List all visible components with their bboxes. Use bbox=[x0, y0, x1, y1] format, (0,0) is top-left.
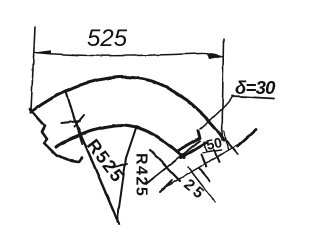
wire: extension line through 25 text bbox=[188, 167, 215, 202]
node: slash tick on dimension line mid right bbox=[214, 150, 219, 162]
node: slash tick below 50 bbox=[199, 168, 210, 181]
wire: end cut lower thick line bbox=[181, 143, 206, 158]
wire: R425 horizontal dash bbox=[114, 164, 127, 167]
wire: 525 dimension line bbox=[35, 53, 224, 58]
svg-text:525: 525 bbox=[87, 25, 128, 52]
wire: break zigzag at left end of strip bbox=[30, 109, 82, 162]
wire: right extension line of 525 dimension bbox=[222, 39, 224, 140]
node: slash tick on dimension line upper right bbox=[227, 141, 238, 154]
wire: long dimension line lower right bbox=[162, 142, 242, 189]
wire: thick top portion of long dimension line bbox=[238, 130, 256, 146]
wire: delta leader line bbox=[200, 97, 232, 129]
svg-text:R525: R525 bbox=[83, 135, 128, 186]
wire: R525 radius line bbox=[75, 121, 119, 224]
node: R525 slash tick bbox=[74, 115, 84, 127]
wire: R425 radius line bbox=[117, 128, 136, 222]
wire: thin bit right of 50 bbox=[224, 131, 228, 149]
node: left arrowhead of 525 dimension bbox=[34, 50, 51, 54]
node: right arrowhead of 525 dimension bbox=[207, 54, 223, 60]
wire: R525 horizontal dash bbox=[61, 121, 80, 123]
wire: inner arc of curved strip bbox=[56, 125, 184, 158]
wire: outer arc of curved strip bbox=[31, 77, 224, 140]
wire: short line crossing X up-right bbox=[146, 141, 200, 184]
wire: straight left edge of strip bbox=[66, 91, 82, 144]
wire: thin bit left of 50 bbox=[204, 142, 207, 152]
wire: delta=30 underline bbox=[232, 96, 274, 99]
svg-text:25: 25 bbox=[180, 176, 209, 204]
svg-text:δ=30: δ=30 bbox=[235, 77, 276, 98]
wire: short line crossing X down-right bbox=[150, 150, 180, 181]
node: slash tick on dimension line lower left bbox=[160, 180, 172, 192]
wire: left extension line of 525 dimension bbox=[31, 27, 35, 110]
svg-text:R425: R425 bbox=[133, 153, 150, 197]
wire: underline of 50 bbox=[203, 150, 221, 153]
wire: end cut upper thick line with stub bbox=[177, 131, 200, 151]
node: slash tick on dimension line at middle bbox=[201, 155, 206, 167]
